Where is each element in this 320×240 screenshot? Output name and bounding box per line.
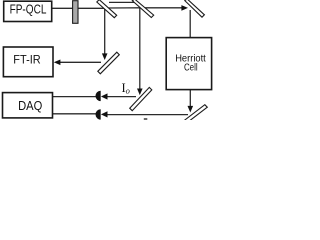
svg-text:FP-QCL: FP-QCL xyxy=(10,2,47,17)
arrow down into M6 xyxy=(188,106,194,113)
wire Herriott cell down to M5 xyxy=(189,90,191,107)
box DAQ xyxy=(3,93,53,118)
box Herriott cell xyxy=(166,38,211,90)
wire DAQ to detector D1 xyxy=(53,96,97,98)
arrow down into Io mirror xyxy=(137,89,143,96)
wire Io mirror to detector D1 xyxy=(108,96,137,98)
wire M5 to detector D2 xyxy=(108,114,189,116)
beamsplitter BS2 xyxy=(132,0,153,17)
detector D2 xyxy=(95,109,100,119)
mirror M4 FT-IR pickoff xyxy=(98,52,120,74)
mirror M3 xyxy=(185,0,205,17)
wire FT-IR mirror to FT-IR xyxy=(60,61,102,63)
box FP-QCL xyxy=(4,1,52,21)
wire BS2 down to Io mirror xyxy=(139,8,141,90)
wire top stub xyxy=(109,1,136,3)
wire BS2 to M3 xyxy=(144,7,183,9)
arrow into detector D1 xyxy=(101,93,108,99)
mirror M5 Io pickoff xyxy=(130,87,152,110)
svg-text:FT-IR: FT-IR xyxy=(13,53,41,67)
wire BS1 down to FT-IR mirror xyxy=(104,8,106,54)
wire M3 down to Herriott cell xyxy=(189,10,191,38)
svg-text:Cell: Cell xyxy=(184,63,198,74)
box FT-IR xyxy=(3,47,53,77)
wire DAQ to detector D2 xyxy=(53,113,97,115)
mirror M6 bottom xyxy=(185,105,208,123)
lens L1 (grey window) xyxy=(73,1,78,24)
svg-text:DAQ: DAQ xyxy=(18,99,42,113)
arrow into FT-IR xyxy=(54,60,61,66)
detector D1 xyxy=(95,91,100,101)
arrow into M3 xyxy=(181,5,188,11)
wire BS1 to BS2 xyxy=(108,7,140,9)
arrow into detector D2 xyxy=(101,111,108,117)
wire laser to BS1 xyxy=(52,7,104,9)
arrow down into FT-IR mirror xyxy=(102,53,108,60)
label I (cropped at bottom edge) xyxy=(144,118,148,120)
beamsplitter BS1 xyxy=(97,0,117,18)
